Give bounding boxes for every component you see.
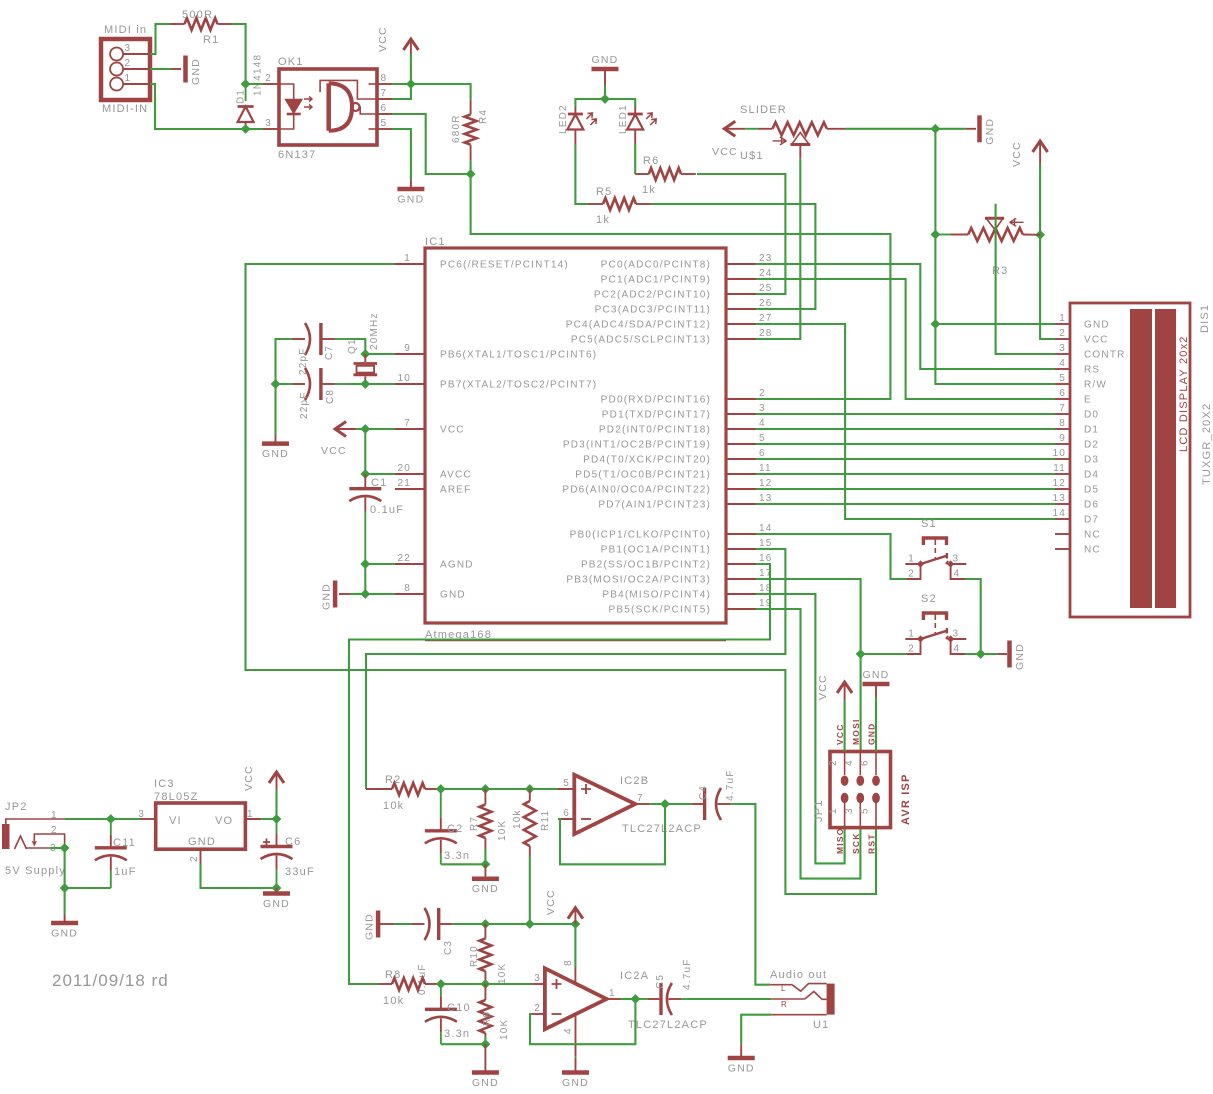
svg-text:1: 1 [1059,313,1066,324]
svg-text:GND: GND [1084,320,1110,331]
svg-text:R: R [781,1000,788,1009]
svg-text:GND: GND [321,583,333,610]
svg-text:2: 2 [265,73,272,84]
wire C7 left corner [276,339,289,384]
IC2A pin8 line [574,968,576,984]
svg-text:0.1uF: 0.1uF [370,504,404,516]
svg-text:C10: C10 [447,1002,471,1014]
svg-text:IC1: IC1 [425,236,446,248]
svg-text:7: 7 [381,88,388,99]
ground LED stem [604,69,606,85]
svg-text:D1: D1 [236,89,247,104]
svg-text:33uF: 33uF [285,866,315,878]
svg-text:C7: C7 [324,345,335,360]
wire R9 bottom short [484,1036,486,1044]
wire ISP pin6 GND [875,697,877,752]
LCD NC pin stub 1 [1055,533,1070,535]
IC2B pin6 stub [558,818,574,820]
svg-text:1: 1 [125,73,132,84]
OK1 pin 2 stub [263,83,279,85]
IC1 pin 23 stub [726,263,756,265]
junction GND rail R3 [931,230,939,238]
ground R9 stem [484,1044,486,1058]
svg-text:1N4148: 1N4148 [253,54,264,96]
svg-text:C6: C6 [285,836,301,848]
wire GND node to C11 bottom [65,887,111,889]
wire IC1 pin9 node [365,353,395,355]
wire D1 anode to OK1 pin3 [246,128,263,130]
wire JP2 GND down [64,888,66,914]
audio jack U1 body [827,984,835,1015]
svg-text:22pF: 22pF [299,391,310,419]
wire JP2 pin3 [50,847,65,849]
IC1 pin 14 stub [726,533,756,535]
svg-text:C2: C2 [447,823,463,835]
ground C3 [376,911,381,938]
svg-text:5: 5 [860,807,871,814]
svg-text:10k: 10k [383,995,404,1007]
resistor R8 [379,983,392,985]
svg-text:R1: R1 [203,34,219,46]
power VCC at IC1 pin7 [335,422,346,437]
ground IC2A pin4 [562,1070,589,1075]
junction JP2 GND [60,884,68,892]
wire R1 to D1 cathode node [232,24,246,84]
svg-text:3: 3 [265,118,272,129]
wire VCC to IC1 pin7 [356,428,395,430]
svg-text:1k: 1k [642,184,656,196]
svg-text:10: 10 [1052,448,1066,459]
JP1 bottom pad 1 [841,793,849,803]
wire PB1 to R2 [366,549,785,789]
svg-text:D3: D3 [1084,455,1099,466]
junction MOSI S2 [856,650,864,658]
op-amp IC2A [545,968,607,1029]
svg-text:5: 5 [759,433,766,444]
ground OK1 pin5 stem [410,180,412,189]
svg-text:IC3: IC3 [154,778,175,790]
wire slider wiper to IC1 pin28 [756,159,800,339]
svg-text:3: 3 [759,403,766,414]
svg-text:16: 16 [759,553,773,564]
svg-text:AVR ISP: AVR ISP [900,773,912,825]
svg-text:8: 8 [404,583,411,594]
svg-text:PB5(SCK/PCINT5): PB5(SCK/PCINT5) [609,605,711,616]
svg-text:6: 6 [563,808,570,819]
svg-text:24: 24 [759,268,773,279]
LCD NC pin stub 2 [1055,548,1070,550]
svg-text:8: 8 [1059,418,1066,429]
svg-text:U1: U1 [813,1019,829,1031]
OK1 pin 5 stub [377,128,392,130]
IC1 pin 6 stub [726,458,756,460]
svg-text:6: 6 [381,103,388,114]
junction VCC R3 [1036,231,1044,239]
junction R11 top [526,785,534,793]
IC2A pin1 stub [607,998,622,1000]
svg-text:GND: GND [1014,643,1026,670]
wire PB3 to MOSI net [756,579,861,654]
svg-text:R2: R2 [385,774,401,786]
svg-text:LED2: LED2 [558,104,569,134]
wire R8 node to R10 bottom [441,983,486,985]
svg-text:9: 9 [404,343,411,354]
svg-text:20: 20 [397,463,411,474]
capacitor C8 [288,383,292,385]
OK1 gate output line pin6 [360,107,393,114]
svg-text:3.3n: 3.3n [444,1028,470,1040]
junction R10 bottom [481,980,489,988]
svg-text:28: 28 [759,328,773,339]
LCD pin 13 stub [1055,503,1070,505]
wire OK1 pin7 to VCC node [392,84,411,99]
JP1 top pad 4 [856,776,864,786]
svg-text:1: 1 [828,807,839,814]
junction IC1 pin7 [361,425,369,433]
wire S1 pin4 down [965,579,981,654]
LCD pin 5 stub [1055,383,1070,385]
slider U$1 body [745,128,758,130]
svg-text:8: 8 [381,73,388,84]
power VCC at LCD [1033,141,1048,152]
capacitor C10 [440,984,442,996]
wire C10 to R9 bottom [441,1043,486,1045]
power VCC at IC2A [568,908,583,919]
capacitor C11 [110,819,112,835]
svg-text:VO: VO [215,815,233,827]
switch S1 [923,538,946,545]
svg-text:1uF: 1uF [114,866,137,878]
IC1 pin 26 stub [726,308,756,310]
svg-text:D6: D6 [1084,500,1099,511]
diode D1 [245,84,247,101]
wire AGND down to GND [364,564,366,594]
svg-text:R/W: R/W [1084,380,1107,391]
svg-text:VCC: VCC [1011,141,1023,167]
svg-text:2011/09/18 rd: 2011/09/18 rd [52,971,169,990]
svg-text:PB3(MOSI/OC2A/PCINT3): PB3(MOSI/OC2A/PCINT3) [566,575,711,586]
svg-text:2: 2 [189,855,200,862]
svg-text:1: 1 [51,810,58,821]
svg-text:D4: D4 [1084,470,1099,481]
svg-text:3: 3 [1059,343,1066,354]
wire GND node left [350,593,365,595]
svg-text:PB6(XTAL1/TOSC1/PCINT6): PB6(XTAL1/TOSC1/PCINT6) [440,350,597,361]
junction S2 GND [977,650,985,658]
svg-text:GND: GND [472,883,499,895]
svg-text:C4: C4 [698,785,709,800]
svg-text:CONTR: CONTR [1084,350,1126,361]
svg-text:21: 21 [397,478,411,489]
svg-text:6N137: 6N137 [278,149,316,161]
svg-text:PC6(/RESET/PCINT14): PC6(/RESET/PCINT14) [440,260,569,271]
svg-text:25: 25 [759,283,773,294]
svg-text:78L05Z: 78L05Z [154,791,199,803]
svg-text:1: 1 [908,629,915,640]
svg-text:IC2B: IC2B [620,775,649,787]
svg-text:PD6(AIN0/OC0A/PCINT22): PD6(AIN0/OC0A/PCINT22) [562,485,711,496]
svg-text:500R: 500R [182,9,213,21]
wire MOSI node to S2 pin2 [861,653,907,655]
svg-text:VCC: VCC [243,765,255,791]
svg-text:20MHz: 20MHz [369,312,380,350]
IC1 pin 28 stub [726,338,756,340]
IC2B minus sign [581,818,591,820]
wire VCC node to pin8 [574,924,576,968]
svg-text:JP1: JP1 [813,799,825,822]
capacitor C7 [288,338,292,340]
svg-text:7: 7 [404,418,411,429]
svg-text:3.3n: 3.3n [444,850,470,862]
svg-text:E: E [1084,395,1092,406]
ground ISP [863,682,890,687]
resistor R10 [484,924,486,939]
OK1 pin 3 stub [263,128,279,130]
wire IC3 VO to VCC [261,818,276,820]
MIDI-IN pin 2 pad [110,63,123,76]
IC1 pin 2 stub [726,398,756,400]
wire PD7 to LCD D6 [756,503,1055,505]
svg-text:AVCC: AVCC [440,470,472,481]
ground MIDI pin2 stem [171,68,181,70]
svg-text:NC: NC [1084,530,1101,541]
ground IC1 pin8 stem [339,593,350,595]
wire LED2 to R5 [575,144,588,204]
svg-text:11: 11 [1053,463,1066,474]
svg-text:SCK: SCK [851,832,861,854]
svg-text:GND: GND [51,928,78,940]
wire R10 to R11 bottom [485,923,529,925]
IC1 pin 7 stub [395,428,425,430]
wire AVCC to pin20 [365,473,395,475]
IC1 pin 27 stub [726,323,756,325]
wire MOSI node to ISP pin4 [860,654,862,752]
svg-text:R5: R5 [596,186,612,198]
op-amp IC2B [574,775,635,834]
svg-text:R7: R7 [469,816,480,831]
wire PC4 to LCD D7 [756,324,1055,519]
svg-text:C8: C8 [325,389,336,404]
svg-text:2: 2 [759,388,766,399]
svg-text:D1: D1 [1084,425,1099,436]
resistor R6 [635,173,649,175]
optocoupler OK1 body [279,69,377,145]
svg-text:4: 4 [844,759,855,766]
svg-text:C11: C11 [113,837,136,849]
svg-text:5: 5 [381,118,388,129]
OK1 pin 8 stub [377,83,392,85]
resistor R1 [170,23,185,25]
IC3 pin 1 stub [245,818,261,820]
resistor R2 [366,788,392,790]
capacitor C1 [364,474,366,489]
svg-text:JP2: JP2 [5,801,28,813]
IC2A minus sign [552,1013,562,1015]
ground slider [977,115,982,142]
junction AGND [361,560,369,568]
svg-text:VCC: VCC [440,425,465,436]
svg-text:1: 1 [404,253,411,264]
svg-text:PC3(ADC3/PCINT11): PC3(ADC3/PCINT11) [595,305,711,316]
connector MIDI-IN body [101,39,150,100]
svg-text:4: 4 [563,1027,574,1034]
LCD pin 14 stub [1055,518,1070,520]
wire MIDI pin1 to OK1 pin3 [150,84,246,129]
svg-text:2: 2 [908,644,915,655]
wire R4 bottom node [470,161,472,174]
LCD bar 2 [1155,309,1176,608]
svg-text:PB0(ICP1/CLKO/PCINT0): PB0(ICP1/CLKO/PCINT0) [570,530,711,541]
svg-text:PC0(ADC0/PCINT8): PC0(ADC0/PCINT8) [601,260,711,271]
IC1 pin 12 stub [726,488,756,490]
wire VCC to R3 right [1039,164,1041,235]
IC1 pin 20 stub [395,473,425,475]
svg-text:GND: GND [440,590,466,601]
wire R2 node to R7 [441,788,486,790]
junction GND rail LCD pin1 [931,320,939,328]
svg-text:6: 6 [759,448,766,459]
svg-text:R4: R4 [478,109,489,124]
connector JP2 body [2,824,10,849]
junction R7 bottom [481,860,489,868]
svg-text:2: 2 [125,58,132,69]
wire GND node to pin8 [365,593,395,595]
OK1 internal gate [326,83,331,130]
ground R7 stem [484,864,486,878]
LCD pin 6 stub [1055,398,1070,400]
wire R11 to opamp pin5 [530,788,558,790]
svg-text:GND: GND [364,913,376,940]
junction R7 top [481,785,489,793]
audio jack R contact [771,998,805,1000]
capacitor C5 [635,998,648,1000]
svg-text:L: L [781,984,787,993]
svg-text:Q1: Q1 [347,338,358,354]
junction IC3 VO [272,815,280,823]
resistor R11 [529,789,531,801]
svg-text:8: 8 [563,959,574,966]
svg-text:2: 2 [1059,328,1066,339]
ground JP2 [51,921,78,926]
IC3 pin 3 stub [140,818,156,820]
svg-text:R3: R3 [992,265,1008,277]
wire MIDI pin2 to GND [150,68,171,70]
LCD pin 3 stub [1055,353,1070,355]
wire RESET to ISP RST [246,264,877,894]
svg-text:3: 3 [534,973,541,984]
IC2B pin7 stub [635,803,650,805]
wire C8 left [276,383,289,385]
audio jack sleeve [771,1014,826,1016]
JP1 bottom pad 5 [872,793,880,803]
wire R5 to IC1 pin26 [651,204,815,309]
wire PB4 to ISP MISO [756,594,845,863]
wire MIDI pin3 to R1 [150,24,170,54]
svg-text:23: 23 [759,253,773,264]
IC1 pin 10 stub [395,383,425,385]
svg-text:AGND: AGND [440,560,474,571]
svg-text:S2: S2 [921,593,937,605]
junction JP2 pin1 C11 [107,815,115,823]
svg-text:6: 6 [860,759,871,766]
svg-text:GND: GND [190,58,202,85]
IC1 pin 24 stub [726,278,756,280]
wire PD6 to LCD D5 [756,488,1055,490]
wire C5 to audio R [688,998,771,1000]
IC IC3 78L05Z body [156,803,246,849]
IC1 pin 9 stub [395,353,425,355]
svg-text:9: 9 [1059,433,1066,444]
svg-text:RS: RS [1084,365,1100,376]
wire to LED2 top [575,99,605,107]
ground MIDI pin2 [183,56,188,83]
svg-text:OK1: OK1 [278,56,304,68]
svg-text:3: 3 [953,554,960,565]
ground OK1 pin5 [397,187,424,192]
svg-text:1: 1 [609,988,616,999]
svg-text:26: 26 [759,298,773,309]
wire OK1 pin5 to GND [392,129,411,180]
IC1 pin 3 stub [726,413,756,415]
OK1 internal LED [279,84,294,99]
JP1 top pad 6 [872,776,880,786]
wire PD4 to LCD D3 [756,458,1055,460]
svg-text:6: 6 [1059,388,1066,399]
svg-text:4.7uF: 4.7uF [682,958,693,990]
svg-text:DIS1: DIS1 [1199,304,1211,333]
LCD bar 1 [1130,309,1152,608]
capacitor C3 [394,923,411,925]
svg-text:AREF: AREF [440,485,471,496]
wire VCC node to R4 top [411,84,471,99]
wire PD3 to LCD D2 [756,443,1055,445]
wire R3 wiper to LCD pin3 [996,204,1055,354]
junction IC2B output [661,800,669,808]
svg-text:13: 13 [1052,493,1066,504]
ground U1 stem [740,1044,742,1058]
svg-text:5V Supply: 5V Supply [5,865,66,877]
svg-text:TUXGR_20X2: TUXGR_20X2 [1201,403,1213,485]
LCD pin 7 stub [1055,413,1070,415]
svg-text:GND: GND [188,836,216,848]
capacitor C6 [276,819,278,834]
IC1 pin 16 stub [726,563,756,565]
svg-text:PC4(ADC4/SDA/PCINT12): PC4(ADC4/SDA/PCINT12) [566,320,711,331]
junction IC2A output [631,995,639,1003]
IC1 pin 15 stub [726,548,756,550]
wire JP2 pin1 to IC3 [65,818,140,820]
svg-text:10K: 10K [497,820,508,841]
wire GND rail vertical [935,129,1055,384]
IC2A pin3 stub [532,983,545,985]
IC1 name underline [425,640,726,642]
ground IC2A pin4 stem [575,1056,577,1058]
wire crystal GND [274,384,276,435]
OK1 light arrows [304,97,312,110]
capacitor C4 [665,803,692,805]
wire IC2B pin7 to node [650,803,665,805]
LCD pin 4 stub [1055,368,1070,370]
svg-text:11: 11 [759,463,772,474]
svg-text:27: 27 [759,313,773,324]
wire C3 to R10 [452,923,485,925]
svg-text:NC: NC [1084,545,1101,556]
svg-text:GND: GND [863,669,890,681]
IC1 pin 21 stub [395,488,425,490]
wire OK1 pin6 to R4 node [392,114,471,174]
wire C6 to IC3 pin2 [201,864,277,888]
wire PD5 to LCD D4 [756,473,1055,475]
